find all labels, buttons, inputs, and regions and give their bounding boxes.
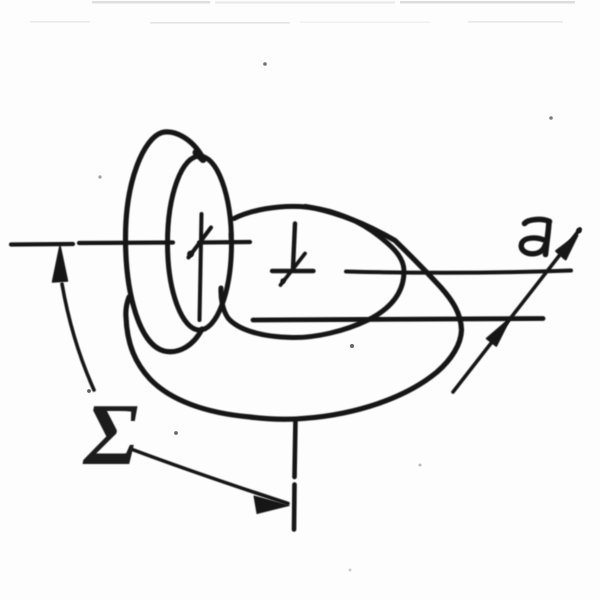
svg-text:Σ: Σ [82, 387, 138, 484]
